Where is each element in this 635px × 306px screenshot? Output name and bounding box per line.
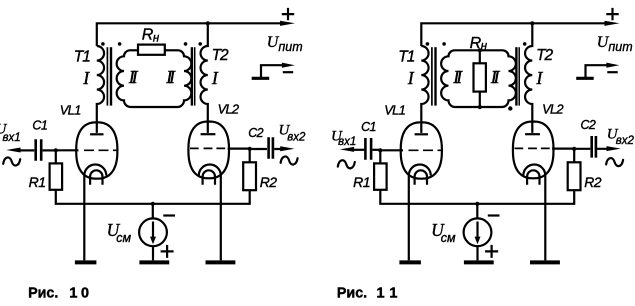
svg-text:11: 11 (376, 286, 403, 302)
svg-text:C1: C1 (361, 120, 376, 134)
svg-text:C2: C2 (248, 126, 263, 140)
svg-text:R: R (470, 35, 482, 52)
svg-text:C1: C1 (32, 119, 47, 133)
svg-text:C2: C2 (581, 118, 596, 132)
svg-text:вх2: вх2 (616, 135, 635, 147)
svg-text:вх1: вх1 (338, 136, 356, 148)
svg-text:вх1: вх1 (3, 132, 21, 144)
svg-text:н: н (153, 33, 160, 45)
svg-text:10: 10 (69, 286, 92, 302)
svg-text:Рис.: Рис. (337, 286, 367, 302)
svg-text:н: н (481, 41, 488, 53)
svg-text:вх2: вх2 (287, 132, 306, 144)
svg-text:R: R (142, 27, 154, 44)
svg-text:Рис.: Рис. (28, 286, 58, 302)
svg-text:пит: пит (608, 40, 632, 54)
svg-text:пит: пит (278, 40, 302, 54)
